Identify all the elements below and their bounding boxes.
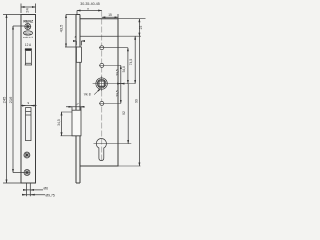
svg-text:Ø6: Ø6	[44, 186, 49, 190]
case right edge top ext	[117, 14, 119, 19]
dim 15 line	[102, 16, 118, 18]
svg-text:12 A: 12 A	[25, 43, 32, 47]
boss circle top	[100, 46, 104, 50]
boss low centerline to dim	[99, 102, 121, 104]
deadbolt dim 17	[66, 106, 84, 108]
cylinder centerline horizontal	[94, 143, 132, 145]
follower outer circle	[96, 78, 107, 89]
dim 245 line	[6, 15, 8, 184]
svg-text:Vk 8: Vk 8	[84, 93, 91, 97]
svg-text:43,5: 43,5	[58, 24, 63, 33]
deadbolt width dim	[21, 105, 37, 107]
svg-text:34,5: 34,5	[57, 119, 61, 126]
case top ext right	[118, 18, 146, 20]
svg-text:a: a	[87, 6, 89, 10]
svg-text:RENZ: RENZ	[23, 20, 34, 24]
follower square	[99, 81, 104, 86]
svg-text:216: 216	[8, 96, 13, 103]
svg-text:24: 24	[25, 8, 30, 13]
dim 54.8 line	[127, 48, 129, 84]
dim 43.5 top extension	[66, 14, 76, 16]
svg-text:92: 92	[122, 111, 126, 115]
svg-text:99: 99	[134, 99, 138, 103]
dim 245 top extension	[3, 14, 21, 16]
dim 43.5 bottom extension	[65, 46, 76, 48]
dim 216 bottom leader	[13, 172, 24, 174]
dim 92 line	[127, 84, 129, 144]
deadbolt stump lines	[26, 112, 32, 116]
follower centerlines	[93, 83, 136, 85]
svg-text:23,5: 23,5	[116, 90, 120, 97]
svg-text:245: 245	[2, 96, 7, 103]
boss circle mid	[100, 63, 104, 67]
dim 74.5 line	[134, 36, 136, 83]
centerline axis	[101, 11, 103, 161]
svg-text:15: 15	[108, 13, 112, 17]
dim 245 bottom extension	[3, 182, 21, 184]
latch slot bottom cap	[25, 63, 32, 65]
follower inner circle	[97, 79, 106, 88]
dim 24 extension lines	[21, 4, 36, 14]
case inner top line	[80, 35, 118, 37]
deadbolt slot	[26, 108, 32, 141]
faceplate side view	[76, 15, 80, 184]
latch slot sides	[25, 51, 31, 65]
lock case outline	[80, 19, 118, 166]
dim chain 23.5/23.5 line	[120, 65, 122, 103]
svg-text:30-35-40-45: 30-35-40-45	[80, 2, 100, 6]
dia 9.75 dim line	[23, 194, 45, 196]
boss circle low	[100, 101, 104, 105]
deadbolt ext lines	[72, 107, 81, 110]
svg-text:Ø9,75: Ø9,75	[46, 194, 55, 198]
deadbolt side view	[72, 110, 81, 136]
svg-text:74,5: 74,5	[129, 59, 133, 66]
svg-text:54,8: 54,8	[122, 66, 126, 73]
dim 24 line	[21, 6, 36, 8]
latch slot top bar	[25, 48, 32, 50]
top screw	[25, 24, 31, 30]
bottom screw upper	[24, 152, 30, 158]
boss top centerline to dim	[99, 47, 128, 49]
svg-text:RENZ: RENZ	[24, 31, 31, 35]
svg-text:made in G: made in G	[23, 37, 33, 39]
backset dim line	[77, 10, 102, 12]
faceplate front view outline	[21, 15, 36, 184]
logo oval	[23, 31, 32, 35]
dim 23 line	[138, 19, 140, 37]
case line36 ext right	[118, 35, 141, 37]
boss mid centerline to dim	[99, 64, 121, 66]
case bottom ext right	[118, 165, 141, 167]
svg-text:23,5: 23,5	[116, 69, 120, 76]
dim 216 top leader	[13, 25, 25, 27]
svg-text:17: 17	[75, 102, 79, 106]
dim 43.5 line	[65, 15, 67, 48]
dim 216 line	[12, 26, 14, 173]
cylinder profile	[96, 139, 106, 161]
hole dia extension lines	[27, 183, 31, 196]
bottom screw lower	[24, 170, 30, 176]
latch bolt	[76, 47, 81, 62]
deadbolt height dim 34.5	[61, 112, 63, 136]
latch bolt dim 8	[74, 40, 77, 42]
dim 99 line	[138, 36, 140, 166]
svg-text:9: 9	[27, 101, 29, 105]
dia 6 dim line	[23, 189, 43, 191]
svg-text:23: 23	[139, 26, 143, 30]
backset ext	[76, 11, 78, 15]
